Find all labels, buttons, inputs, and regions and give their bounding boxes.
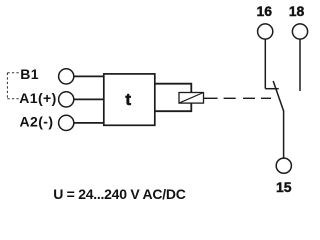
svg-text:U = 24...240 V AC/DC: U = 24...240 V AC/DC bbox=[53, 186, 186, 202]
wire from terminal 18 down bbox=[299, 39, 301, 91]
wire timer to coil loop bottom bbox=[155, 103, 192, 111]
wire A1 to timer box bbox=[74, 98, 104, 100]
wire A2 to timer box bbox=[74, 122, 104, 124]
svg-text:15: 15 bbox=[276, 179, 292, 195]
wire B1 to timer box bbox=[74, 75, 104, 77]
svg-text:A2(-): A2(-) bbox=[20, 114, 54, 130]
wire arm to terminal 15 bbox=[283, 110, 285, 158]
terminal circle B1 bbox=[59, 69, 74, 84]
fixed contact tick 16 bbox=[265, 88, 278, 90]
terminal circle 18 bbox=[292, 24, 307, 39]
svg-text:A1(+): A1(+) bbox=[19, 90, 56, 106]
terminal circle A2 bbox=[59, 115, 74, 130]
terminal circle 15 bbox=[276, 158, 291, 173]
svg-text:18: 18 bbox=[289, 3, 305, 19]
moving contact arm bbox=[273, 81, 283, 111]
wire timer to coil loop top bbox=[155, 84, 192, 93]
svg-text:B1: B1 bbox=[20, 66, 39, 82]
dashed bracket linking B1 and A1 bbox=[7, 73, 19, 99]
svg-text:t: t bbox=[125, 90, 131, 109]
relay coil K1 bbox=[179, 93, 204, 104]
terminal circle A1 bbox=[59, 92, 74, 107]
svg-text:16: 16 bbox=[257, 3, 273, 19]
dashed mechanical linkage bbox=[224, 97, 271, 99]
wire from coil to linkage bbox=[204, 97, 218, 99]
timer block U1 bbox=[104, 74, 155, 125]
wire from terminal 16 down bbox=[264, 39, 266, 89]
terminal circle 16 bbox=[258, 24, 273, 39]
